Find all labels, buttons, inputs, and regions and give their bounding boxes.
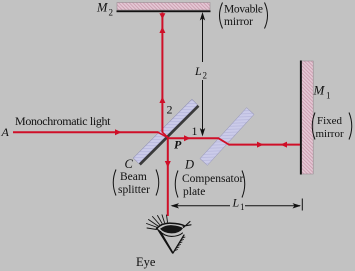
label (Beam splitter) (113, 170, 159, 197)
svg-text:Movable: Movable (224, 4, 263, 16)
arrow toward M1 (257, 142, 264, 148)
svg-text:splitter: splitter (118, 184, 150, 196)
beam 1: P to compensator (169, 137, 219, 139)
mirror M1 (fixed mirror, right) (300, 61, 313, 175)
eye sketch (147, 215, 192, 253)
svg-text:Beam: Beam (120, 171, 147, 183)
arrow up near mirror M2 (159, 27, 165, 34)
svg-text:1: 1 (326, 91, 331, 101)
svg-text:1: 1 (192, 124, 198, 138)
beam: incoming monochromatic light (13, 131, 159, 133)
stitch marks along right V (175, 237, 185, 251)
label (Movable mirror) (220, 3, 268, 29)
svg-text:2: 2 (109, 8, 114, 18)
svg-text:M: M (313, 83, 326, 98)
upper eyelid (157, 223, 185, 228)
beam: compensator to M1 (229, 144, 301, 146)
lower lid (159, 231, 183, 237)
beam: refraction sliver inside splitter (from incoming to P) (158, 132, 169, 138)
dimension line L2 (200, 12, 205, 137)
svg-text:mirror: mirror (316, 128, 344, 140)
arrow up mid beam 2 (159, 97, 165, 104)
iris/pupil (160, 225, 183, 233)
mirror M2 (movable mirror, top) (117, 3, 211, 13)
label L1 (232, 196, 245, 213)
dimension line L1 (171, 199, 303, 211)
svg-text:Compensator: Compensator (182, 173, 243, 185)
label M1 (313, 83, 331, 101)
beam: refraction sliver (P up to exit point of beam 2) (162, 132, 169, 138)
svg-text:M: M (96, 1, 108, 15)
svg-text:Fixed: Fixed (317, 115, 343, 127)
beam 2: splitter up to M2 (161, 13, 163, 133)
label (Compensator plate) (175, 171, 245, 199)
svg-text:2: 2 (167, 103, 173, 117)
svg-text:Monochromatic light: Monochromatic light (15, 114, 111, 128)
beam: down to eye (167, 138, 169, 216)
arrow on beam 1 (184, 135, 191, 141)
V lines converging below (158, 229, 185, 253)
svg-text:A: A (1, 125, 10, 139)
label L2 (194, 64, 207, 81)
svg-text:1: 1 (240, 202, 245, 212)
svg-text:P: P (174, 138, 182, 152)
arrow down (return beam) near mirror M2 (159, 13, 165, 19)
svg-text:mirror: mirror (224, 16, 253, 28)
label (Fixed mirror) (312, 113, 352, 141)
compensator plate D (diagonal slab) (200, 108, 254, 166)
eyelash flick right (183, 222, 191, 228)
svg-text:L: L (232, 196, 240, 210)
svg-text:Eye: Eye (136, 255, 156, 269)
arrow down to eye (165, 161, 171, 168)
svg-text:L: L (194, 64, 202, 78)
svg-text:C: C (125, 157, 134, 171)
arrow on incoming beam (115, 129, 122, 135)
svg-text:D: D (184, 158, 194, 172)
beam splitter C (diagonal slab with silvered back face) (133, 99, 199, 165)
arrow returning from M1 (281, 142, 288, 148)
beam jog through compensator (219, 138, 230, 144)
svg-text:2: 2 (203, 71, 208, 81)
label M2 (96, 1, 113, 18)
lashes upper-left (147, 215, 168, 230)
svg-text:plate: plate (183, 186, 205, 198)
